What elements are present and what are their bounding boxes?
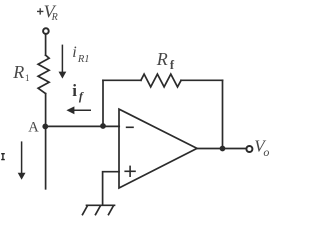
wire feedback right vertical [222,80,224,148]
junction node output [220,146,226,152]
svg-text:f: f [170,58,175,72]
svg-text:o: o [263,145,269,159]
wire node A to op-amp inverting input [46,125,120,127]
svg-text:R: R [51,12,58,23]
label Rf [156,49,175,72]
op-amp U1 [119,109,197,188]
wire feedback top right [181,79,222,81]
label R1 [12,62,29,83]
wire VR terminal to R1 [45,35,47,55]
resistor R1 [38,55,49,93]
wire R1 to node A and down (current I input lead) [45,94,47,189]
wire feedback top left [103,79,141,81]
svg-text:i: i [72,44,76,61]
label vo [254,137,269,159]
label iR1 [72,44,89,65]
svg-text:i: i [72,81,77,100]
current arrow iR1 [59,45,67,79]
wire op-amp output [197,148,245,150]
node A junction dot [42,124,48,130]
op-amp plus input symbol [124,166,135,177]
terminal +VR [43,28,49,34]
wire plus input to ground [103,172,119,205]
wire feedback left vertical [102,80,104,126]
op-amp minus input symbol [126,126,134,128]
resistor Rf [141,74,181,87]
label +VR [37,1,58,23]
current arrow if (pointing left) [66,106,91,114]
svg-text:A: A [28,119,39,135]
svg-text:R: R [156,49,168,69]
svg-text:1: 1 [25,73,30,83]
terminal vo [246,146,252,152]
label I [1,154,5,160]
svg-text:R1: R1 [77,54,90,65]
label if [72,81,84,103]
svg-text:f: f [79,89,84,103]
svg-text:R: R [12,62,24,82]
current arrow I [18,141,26,179]
junction node feedback/inverting input [100,123,106,129]
ground [83,205,115,214]
